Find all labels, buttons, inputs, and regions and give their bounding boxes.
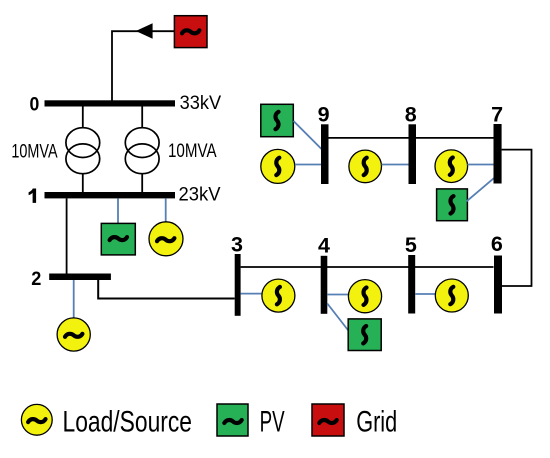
wire bus1 to load L1 <box>165 198 167 222</box>
wire bus7 to bus6 (loop) <box>502 150 532 286</box>
wire grid G1 to bus 0 <box>112 31 174 101</box>
PV generator near bus 4 <box>348 319 381 351</box>
arrow on grid feeder (points left) <box>136 23 153 39</box>
svg-text:3: 3 <box>231 233 243 257</box>
node 1 label <box>29 189 36 203</box>
wire bus5 to load (blue) <box>415 293 435 295</box>
wire transformer T1 to bus1 <box>82 174 84 193</box>
PV generator near bus 9 <box>261 104 294 136</box>
svg-text:4: 4 <box>318 234 330 258</box>
bus 0 <box>45 100 176 106</box>
load/source at bus 5 <box>435 279 468 312</box>
svg-text:7: 7 <box>491 102 503 126</box>
wire bus3 to bus6 <box>241 266 494 268</box>
wire load to bus7 <box>467 164 493 166</box>
transformer T2 <box>125 128 159 174</box>
bus 7 <box>494 124 502 184</box>
load/source L1 at bus 1 <box>149 222 183 256</box>
wire bus4 to PV (diagonal) <box>327 304 349 333</box>
wire bus2 to bus3 <box>98 280 235 299</box>
svg-text:9: 9 <box>318 102 330 126</box>
bus 3 <box>235 254 241 316</box>
svg-text:Load/Source: Load/Source <box>63 406 193 439</box>
svg-text:2: 2 <box>31 268 41 290</box>
wire PV to bus9 (diagonal) <box>294 121 322 149</box>
PV generator at bus 1 <box>101 223 135 255</box>
load/source at bus 7 <box>435 150 468 183</box>
svg-text:10MVA: 10MVA <box>11 141 57 162</box>
svg-text:8: 8 <box>405 102 417 126</box>
bus 1 <box>45 192 176 198</box>
wire transformer T2 to bus1 <box>141 174 143 193</box>
svg-text:5: 5 <box>405 233 417 257</box>
wire PV to bus7 (diagonal) <box>467 178 495 202</box>
wire bus4 to load (blue) <box>327 294 348 296</box>
load/source at bus 3 <box>262 279 295 312</box>
svg-text:PV: PV <box>260 406 285 439</box>
wire load to bus9 <box>295 164 321 166</box>
bus 9 <box>321 124 329 184</box>
bus 5 <box>408 255 415 314</box>
PV generator near bus 7 <box>437 189 468 221</box>
wire load to bus8 <box>382 164 409 166</box>
svg-text:33kV: 33kV <box>180 93 222 114</box>
svg-text:Grid: Grid <box>356 406 397 439</box>
load/source at bus 4 <box>348 280 381 313</box>
bus 6 <box>494 256 502 314</box>
bus 4 <box>321 256 328 314</box>
wire bus1 to bus2 <box>66 198 68 273</box>
svg-text:0: 0 <box>30 93 40 115</box>
bus 8 <box>409 124 417 184</box>
legend PV symbol <box>217 404 248 436</box>
load/source at bus 8 <box>349 150 382 183</box>
grid equivalent source G1 (red) <box>174 16 207 48</box>
transformer T1 <box>66 128 100 174</box>
load/source L2 at bus 2 <box>57 318 90 351</box>
wire bus9 to bus7 <box>329 137 494 139</box>
bus 2 <box>49 274 111 281</box>
load/source at bus 9 <box>261 149 295 183</box>
wire bus0 to transformer T1 <box>82 107 84 129</box>
svg-text:6: 6 <box>491 232 503 256</box>
wire bus2 to load L2 <box>73 280 75 318</box>
svg-text:10MVA: 10MVA <box>168 141 217 162</box>
wire bus1 to PV1 <box>117 198 119 223</box>
wire bus3 to load (blue) <box>241 293 262 295</box>
svg-text:23kV: 23kV <box>179 185 221 206</box>
wire bus0 to transformer T2 <box>141 107 143 129</box>
legend Grid symbol <box>312 404 344 436</box>
legend load/source symbol <box>21 404 52 435</box>
